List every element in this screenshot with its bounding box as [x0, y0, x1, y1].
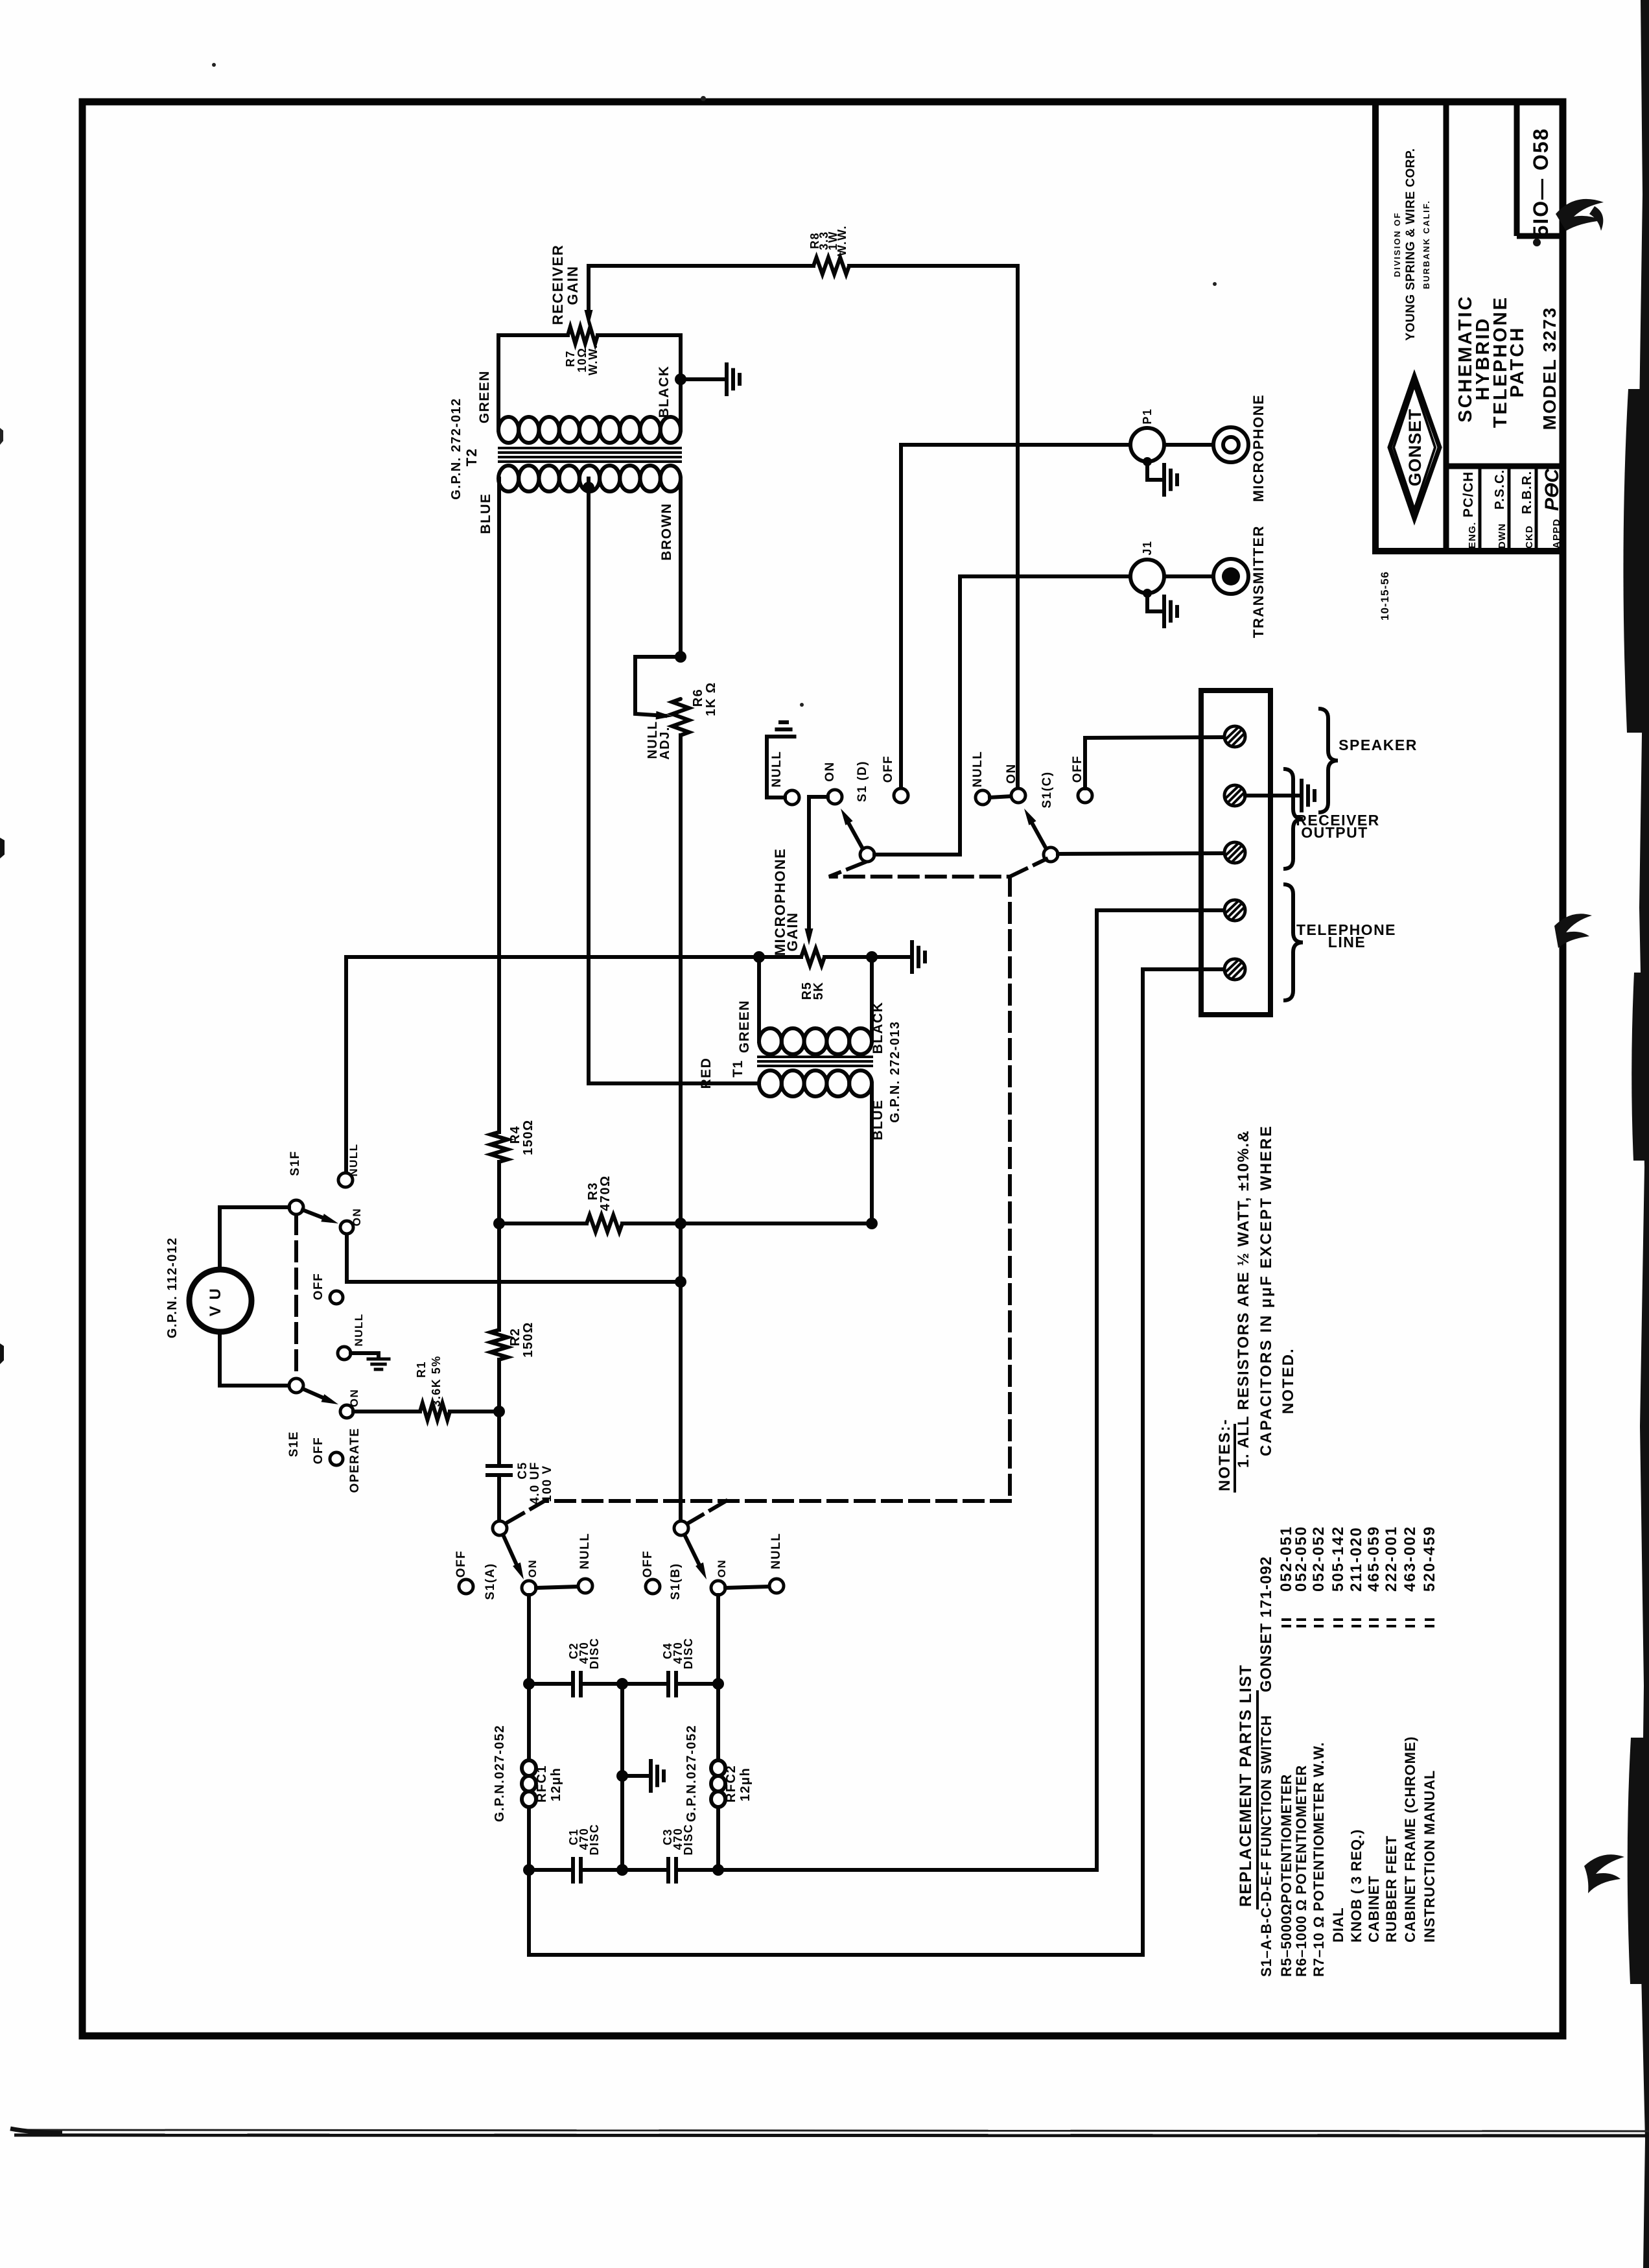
transformer T2 core [499, 447, 681, 449]
switch S1F NULL contact [338, 1173, 353, 1187]
transformer T2 secondary winding [498, 466, 519, 491]
svg-text:RECEIVER: RECEIVER [550, 244, 566, 325]
GONSET logo [1390, 376, 1440, 519]
page fold line bottom [12, 2129, 1649, 2131]
scan curl mark top right [1556, 199, 1604, 231]
svg-text:470Ω: 470Ω [598, 1175, 613, 1211]
svg-text:NOTES:-: NOTES:- [1216, 1418, 1234, 1491]
switch S1F arm [303, 1210, 329, 1220]
svg-text:463-002: 463-002 [1401, 1526, 1419, 1592]
title block frame [1375, 102, 1563, 551]
svg-text:NULL: NULL [971, 751, 985, 788]
switch S1(B) OFF contact [646, 1579, 660, 1594]
node T1 black [866, 951, 878, 963]
svg-text:DWN: DWN [1497, 523, 1508, 549]
svg-text:BLACK: BLACK [657, 366, 672, 418]
svg-text:R7–10 Ω POTENTIOMETER W.W.: R7–10 Ω POTENTIOMETER W.W. [1311, 1742, 1327, 1977]
switch S1(C) arm [1044, 847, 1058, 862]
svg-text:GAIN: GAIN [565, 266, 581, 305]
wire microphone feed [901, 443, 1130, 447]
switch S1(A) pivot [493, 1521, 507, 1535]
node T2 black to ground [675, 373, 686, 385]
switch S1(A) OFF contact [459, 1579, 473, 1594]
svg-text:OFF: OFF [1071, 755, 1084, 783]
svg-text:APPD: APPD [1551, 519, 1562, 549]
switch S1(C) NULL contact [976, 790, 990, 805]
svg-text:CABINET FRAME (CHROME): CABINET FRAME (CHROME) [1402, 1736, 1418, 1943]
svg-text:RUBBER FEET: RUBBER FEET [1383, 1836, 1399, 1943]
capacitor C2 [571, 1673, 575, 1695]
wire R3 to T1 blue node [622, 1222, 872, 1225]
ground at terminal 2 [1300, 781, 1304, 810]
svg-text:G.P.N. 272-013: G.P.N. 272-013 [888, 1021, 902, 1122]
switch S1(D) NULL contact [785, 790, 799, 805]
resistor R2 [491, 1330, 508, 1360]
switch S1E arm [303, 1389, 329, 1400]
svg-text:100 V: 100 V [541, 1465, 554, 1502]
wire plug to transmitter jack [1164, 574, 1213, 578]
svg-text:OFF: OFF [312, 1273, 325, 1301]
capacitor C4 [666, 1673, 670, 1695]
svg-text:LINE: LINE [1328, 934, 1366, 951]
specks [1533, 239, 1541, 246]
svg-text:222-001: 222-001 [1383, 1526, 1400, 1592]
svg-text:BLUE: BLUE [871, 1099, 885, 1140]
node R3/brown junction [675, 1218, 686, 1229]
wire S1(A) ON-NULL link [536, 1587, 578, 1588]
svg-text:MICROPHONE: MICROPHONE [1250, 394, 1267, 502]
wire C1 row [529, 1868, 570, 1872]
VU meter [189, 1270, 251, 1332]
terminal 4 [1224, 900, 1245, 921]
switch S1F ON contact [340, 1221, 353, 1234]
svg-text:3.6K 5%: 3.6K 5% [430, 1355, 443, 1407]
svg-text:OFF: OFF [454, 1550, 468, 1578]
ground at R5 [910, 942, 914, 972]
resistor R3 [587, 1215, 622, 1232]
svg-text:S1F: S1F [288, 1150, 302, 1175]
svg-text:PATCH: PATCH [1507, 326, 1528, 398]
svg-text:S1(A): S1(A) [484, 1563, 497, 1600]
ground at RFC filter [649, 1761, 653, 1791]
switch S1(D) ON contact [828, 790, 842, 804]
switch S1(C) ON contact [1011, 788, 1025, 803]
wire S1(B) ON-NULL link [725, 1587, 769, 1588]
transformer T1 primary winding [759, 1028, 782, 1054]
switch S1(D) arm [860, 847, 874, 862]
wire R6 down to R3 node [679, 735, 683, 1223]
svg-text:R2: R2 [508, 1328, 522, 1347]
switch S1(A) NULL contact [578, 1579, 592, 1593]
svg-text:ON: ON [823, 761, 837, 782]
svg-text:J1: J1 [1141, 540, 1154, 555]
svg-text:W.W.: W.W. [587, 344, 600, 375]
svg-text:P.S.C.: P.S.C. [1493, 469, 1507, 510]
svg-text:OFF: OFF [641, 1550, 655, 1578]
scan curl mark middle right [1554, 914, 1592, 948]
switch S1E NULL contact [338, 1347, 351, 1360]
wire C2 row [529, 1682, 570, 1686]
svg-text:CAPACITORS IN μμF EXCEPT WHERE: CAPACITORS IN μμF EXCEPT WHERE [1257, 1124, 1275, 1456]
choke RFC1 [522, 1760, 536, 1776]
switch S1E ON contact [340, 1405, 353, 1418]
wire S1(C) NULL-ON link [990, 796, 1011, 797]
svg-text:ON: ON [351, 1208, 363, 1227]
svg-text:1. ALL RESISTORS ARE ½ WATT, ±: 1. ALL RESISTORS ARE ½ WATT, ±10%.& [1235, 1130, 1252, 1468]
wire T1 blue lead down [870, 1083, 874, 1223]
svg-text:P1: P1 [1141, 408, 1154, 424]
svg-text:R6–1000 Ω POTENTIOMETER: R6–1000 Ω POTENTIOMETER [1293, 1765, 1309, 1977]
svg-text:5IO— O58: 5IO— O58 [1529, 128, 1552, 237]
svg-text:G.P.N. 112-012: G.P.N. 112-012 [165, 1237, 180, 1338]
switch S1(B) NULL contact [769, 1579, 784, 1593]
svg-text:150Ω: 150Ω [521, 1321, 535, 1357]
node T1 blue junction [866, 1218, 878, 1229]
wire plug to microphone jack [1164, 443, 1213, 447]
svg-text:S1 (D): S1 (D) [856, 761, 869, 802]
svg-text:R7: R7 [564, 350, 577, 367]
svg-text:G.P.N.027-052: G.P.N.027-052 [493, 1725, 507, 1822]
microphone jack ring [1213, 427, 1248, 462]
R7 wiper arrow [587, 266, 591, 314]
switch S1(A) arm [503, 1535, 519, 1569]
svg-text:RFC2: RFC2 [724, 1765, 738, 1802]
wire S1(D) ON to microphone gain arrow [809, 797, 828, 935]
svg-text:GREEN: GREEN [737, 1000, 752, 1053]
svg-text:S1–A-B-C-D-E-F FUNCTION SWITCH: S1–A-B-C-D-E-F FUNCTION SWITCH [1258, 1715, 1274, 1977]
svg-text:505-142: 505-142 [1329, 1526, 1347, 1592]
wire VU meter top lead [220, 1207, 289, 1270]
mechanical linkage S1(C)/S1(D) [829, 862, 1010, 877]
node C3 right [712, 1864, 724, 1876]
wire T2 center tap down to T1 red [583, 482, 594, 493]
wire transmitter feed [960, 574, 1130, 578]
svg-text:BROWN: BROWN [659, 502, 674, 560]
potentiometer R6 [672, 699, 689, 735]
svg-text:S1(B): S1(B) [669, 1563, 683, 1600]
wire R1 to column node [450, 1410, 499, 1413]
switch S1E pivot [289, 1378, 303, 1393]
svg-text:052-050: 052-050 [1292, 1526, 1310, 1592]
scan curl mark bottom right [1584, 1854, 1624, 1893]
svg-text:PƟC: PƟC [1541, 468, 1563, 511]
choke RFC2 [711, 1760, 725, 1776]
plug J1 body [1130, 560, 1164, 593]
svg-text:520-459: 520-459 [1421, 1526, 1438, 1592]
switch S1F pivot [289, 1200, 303, 1214]
svg-text:DISC: DISC [682, 1823, 695, 1855]
wire brown column to S1(B) [679, 1223, 683, 1521]
terminal 3 [1224, 842, 1245, 863]
svg-text:W.W.: W.W. [836, 225, 848, 256]
terminal strip [1201, 691, 1270, 1015]
svg-text:YOUNG SPRING & WIRE CORP.: YOUNG SPRING & WIRE CORP. [1404, 148, 1418, 340]
svg-text:5K: 5K [812, 982, 826, 1000]
wire S1(C) common to terminal 3 [1058, 853, 1224, 854]
svg-text:MODEL 3273: MODEL 3273 [1539, 307, 1560, 431]
svg-text:TRANSMITTER: TRANSMITTER [1250, 525, 1267, 638]
svg-text:150Ω: 150Ω [521, 1119, 535, 1155]
terminal 5 [1224, 959, 1245, 980]
node mid column top [616, 1678, 628, 1690]
wire T2 brown lead down [679, 478, 683, 657]
terminal 2 [1224, 785, 1245, 806]
svg-text:S1E: S1E [287, 1431, 301, 1457]
svg-text:DISC: DISC [588, 1637, 601, 1669]
wire T1 green lead [757, 957, 761, 1041]
svg-text:C5: C5 [516, 1461, 530, 1479]
svg-text:465-059: 465-059 [1365, 1526, 1383, 1592]
node mid column bottom [616, 1864, 628, 1876]
node R4/R3 junction [493, 1218, 505, 1229]
transmitter jack ring [1213, 559, 1248, 594]
svg-text:NOTED.: NOTED. [1280, 1347, 1297, 1414]
node C2 left [523, 1678, 535, 1690]
potentiometer R5 [801, 949, 824, 965]
switch S1(B) ON contact [711, 1581, 725, 1595]
svg-text:R4: R4 [508, 1126, 522, 1144]
svg-text:BLACK: BLACK [871, 1002, 885, 1054]
svg-text:KNOB ( 3 REQ.): KNOB ( 3 REQ.) [1348, 1829, 1364, 1943]
switch S1(C) OFF contact [1078, 788, 1092, 803]
svg-text:4.0 UF: 4.0 UF [528, 1461, 542, 1504]
potentiometer R7 loop wires [498, 335, 568, 430]
svg-text:R1: R1 [415, 1361, 428, 1378]
svg-text:GAIN: GAIN [784, 912, 801, 952]
svg-text:R6: R6 [691, 689, 705, 707]
svg-text:T2: T2 [463, 448, 480, 467]
svg-text:ON: ON [1005, 763, 1018, 784]
ground at T2 black [725, 364, 729, 394]
wire VU meter bottom lead [220, 1332, 289, 1386]
svg-text:V U: V U [207, 1288, 224, 1317]
node R1/R2/C5 junction [493, 1406, 505, 1417]
svg-text:REPLACEMENT PARTS LIST: REPLACEMENT PARTS LIST [1237, 1664, 1255, 1907]
ground at S1(D) NULL [773, 735, 795, 738]
svg-text:BURBANK CALIF.: BURBANK CALIF. [1421, 200, 1431, 289]
resistor R1 [420, 1403, 450, 1420]
switch S1(B) arm [684, 1535, 701, 1569]
svg-text:CABINET: CABINET [1366, 1876, 1382, 1943]
ground at S1E NULL [351, 1353, 379, 1358]
potentiometer R7 [568, 327, 598, 344]
switch S1(D) OFF contact [894, 788, 908, 803]
ground at P1 [1143, 457, 1152, 466]
svg-text:R.B.R.: R.B.R. [1520, 471, 1534, 514]
svg-text:ENG.: ENG. [1467, 522, 1478, 549]
transformer T2 primary winding [498, 417, 519, 443]
node mid ground tap [616, 1770, 628, 1782]
wire RFC2 down [716, 1807, 720, 1870]
mechanical linkage S1E/S1F [294, 1215, 298, 1378]
svg-text:R5–5000ΩPOTENTIOMETER: R5–5000ΩPOTENTIOMETER [1278, 1774, 1294, 1977]
wire S1(A) ON down [527, 1595, 531, 1760]
left edge marks [0, 838, 5, 858]
wire null line to R5 [346, 955, 801, 959]
wire telephone line B [529, 969, 1224, 1955]
R6 wiper loop [635, 657, 681, 716]
wire mid ground column [620, 1684, 624, 1870]
capacitor C5 [487, 1464, 511, 1468]
node brown / R6 top [675, 651, 686, 663]
brace speaker [1318, 709, 1338, 812]
wire terminal 2 to ground [1245, 794, 1298, 797]
svg-text:BLUE: BLUE [478, 493, 493, 534]
capacitor C3 [666, 1859, 670, 1882]
svg-text:OFF: OFF [312, 1437, 325, 1465]
svg-text:12μh: 12μh [549, 1767, 563, 1802]
svg-text:GREEN: GREEN [477, 370, 492, 423]
wire S1F ON line [347, 1234, 681, 1282]
brace receiver output [1283, 769, 1303, 869]
svg-text:ON: ON [716, 1559, 728, 1578]
wire T2 blue lead down [497, 478, 501, 1132]
svg-text:G.P.N.027-052: G.P.N.027-052 [684, 1725, 699, 1822]
node C1 left [523, 1864, 535, 1876]
wire S1F NULL to R5 line [344, 957, 348, 1173]
node T1 green [753, 951, 765, 963]
resistor R8 [813, 257, 849, 274]
node C4 right [712, 1678, 724, 1690]
svg-text:1K Ω: 1K Ω [704, 681, 718, 716]
svg-text:GONSET 171-092: GONSET 171-092 [1257, 1556, 1275, 1692]
svg-text:ADJ.: ADJ. [658, 726, 672, 760]
svg-text:NULL: NULL [578, 1533, 592, 1570]
svg-text:NULL: NULL [347, 1143, 360, 1176]
switch S1F OFF contact [330, 1291, 343, 1304]
wire R7 wiper to R8 [589, 264, 813, 268]
border frame [82, 102, 1563, 2036]
wire S1(D) common to transmitter line [874, 853, 960, 856]
wire S1(B) ON down [716, 1595, 720, 1760]
svg-text:NULL: NULL [353, 1313, 365, 1346]
wire R4 to R2 [497, 1162, 501, 1330]
switch S1(A) ON contact [522, 1581, 536, 1595]
transformer T1 secondary winding [759, 1070, 782, 1096]
svg-text:SPEAKER: SPEAKER [1339, 737, 1418, 753]
svg-text:PC/CH: PC/CH [1461, 471, 1476, 517]
resistor R4 [491, 1132, 508, 1162]
svg-text:GONSET: GONSET [1405, 408, 1425, 486]
svg-text:S1(C): S1(C) [1040, 771, 1054, 808]
ground at J1 [1143, 589, 1152, 598]
wire RFC1 down [527, 1807, 531, 1955]
scan edge streak right [1639, 0, 1649, 2268]
wire R2 to C5 [497, 1360, 501, 1464]
plug P1 body [1130, 428, 1164, 462]
node S1F line / brown column [675, 1276, 686, 1288]
svg-text:NULL: NULL [769, 1533, 783, 1570]
svg-text:211-020: 211-020 [1348, 1526, 1365, 1592]
svg-text:ON: ON [526, 1559, 539, 1578]
svg-text:RED: RED [699, 1057, 714, 1089]
svg-text:T1: T1 [731, 1059, 745, 1078]
svg-text:RFC1: RFC1 [535, 1765, 549, 1802]
svg-text:OFF: OFF [882, 755, 895, 783]
wire S1(C) OFF to terminal 1 [1085, 737, 1224, 788]
svg-text:OPERATE: OPERATE [348, 1428, 362, 1493]
svg-text:10-15-56: 10-15-56 [1379, 571, 1391, 620]
switch S1E OFF contact [330, 1452, 343, 1465]
wire T1 black lead [870, 957, 874, 1041]
wire telephone line A [718, 910, 1224, 1870]
wire S1E ON to R1 [353, 1410, 420, 1413]
svg-text:12μh: 12μh [738, 1767, 753, 1802]
svg-text:G.P.N. 272-012: G.P.N. 272-012 [449, 397, 463, 499]
svg-text:DISC: DISC [588, 1823, 601, 1855]
svg-text:CKD: CKD [1524, 525, 1535, 549]
svg-text:OUTPUT: OUTPUT [1301, 824, 1368, 841]
brace telephone line [1283, 884, 1303, 1000]
transformer T1 core [758, 1056, 872, 1058]
terminal 1 [1224, 726, 1245, 747]
wire R5 to ground node [824, 955, 909, 959]
svg-text:DISC: DISC [682, 1637, 695, 1669]
switch S1(B) pivot [674, 1521, 688, 1535]
svg-text:NULL: NULL [770, 751, 784, 788]
svg-text:INSTRUCTION MANUAL: INSTRUCTION MANUAL [1421, 1770, 1438, 1943]
svg-text:DIVISION OF: DIVISION OF [1392, 212, 1402, 278]
svg-text:ON: ON [348, 1389, 360, 1408]
svg-text:DIAL: DIAL [1330, 1907, 1346, 1943]
capacitor C1 [571, 1859, 575, 1882]
svg-text:052-052: 052-052 [1310, 1526, 1327, 1592]
wire R3 line [499, 1222, 587, 1225]
